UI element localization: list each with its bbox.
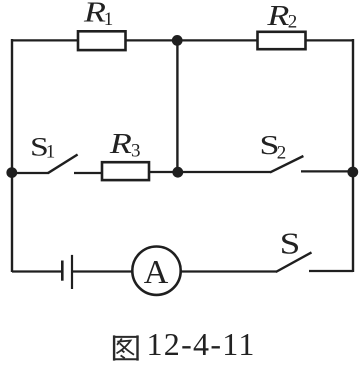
node C: middle junction dot (172, 167, 183, 178)
svg-text:12-4-11: 12-4-11 (147, 326, 256, 362)
caption: 图 12-4-11 (113, 326, 256, 362)
wire: battery to ammeter (72, 270, 132, 272)
wire: right edge vertical (352, 39, 354, 272)
switch S (276, 252, 353, 272)
wire: node A to R2 (177, 39, 258, 41)
svg-text:1: 1 (104, 9, 114, 30)
ammeter A (132, 247, 180, 295)
node A: top junction dot (172, 35, 183, 46)
svg-text:2: 2 (277, 142, 287, 163)
wire: R2 to top-right corner (306, 39, 354, 41)
node D: right middle junction dot (347, 167, 358, 178)
switch S1 (48, 155, 102, 174)
label S2 (259, 130, 286, 164)
svg-text:R: R (266, 1, 289, 32)
label R2 (266, 1, 297, 33)
wire: R1 to node A (126, 39, 178, 41)
wire: node C to switch S2 pivot (178, 171, 271, 173)
wire: ammeter to switch S pivot (181, 270, 277, 272)
label R1 (83, 0, 114, 30)
svg-text:R: R (109, 129, 132, 160)
resistor R3 (102, 162, 149, 180)
resistor R1 (78, 31, 126, 50)
label R3 (109, 129, 141, 161)
switch S2 (270, 156, 353, 172)
battery (cell) (62, 255, 72, 289)
svg-text:R: R (83, 0, 106, 29)
wire: top side, left corner to R1 (12, 39, 79, 41)
node B: left middle junction dot (6, 167, 17, 178)
wire: R3 to node C (149, 171, 178, 173)
svg-text:S: S (280, 226, 301, 260)
svg-text:A: A (144, 254, 169, 291)
svg-text:1: 1 (46, 142, 56, 163)
svg-text:3: 3 (131, 140, 141, 161)
wire: node A to node C vertical branch (176, 40, 178, 172)
wire: left edge vertical (11, 39, 13, 272)
wire: bottom-left corner to battery (12, 270, 63, 272)
label S1 (30, 132, 55, 163)
svg-text:2: 2 (288, 11, 298, 32)
wire: node B to switch S1 pivot (12, 172, 49, 174)
resistor R2 (258, 32, 306, 49)
